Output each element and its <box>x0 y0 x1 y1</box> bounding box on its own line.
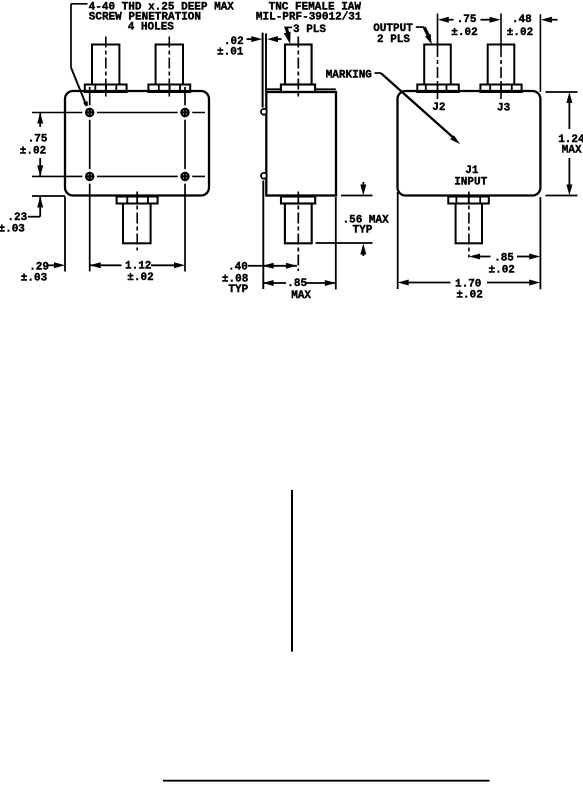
svg-text:.85: .85 <box>494 252 514 264</box>
svg-text:MAX: MAX <box>291 290 311 302</box>
svg-text:.40: .40 <box>228 262 248 274</box>
svg-text:2 PLS: 2 PLS <box>377 34 410 46</box>
svg-text:J1: J1 <box>465 165 479 177</box>
svg-text:J3: J3 <box>497 103 511 115</box>
svg-text:±.02: ±.02 <box>20 146 46 158</box>
svg-text:MAX: MAX <box>562 144 582 156</box>
svg-text:±.02: ±.02 <box>127 272 153 284</box>
svg-text:1.12: 1.12 <box>125 261 151 273</box>
svg-text:MIL-PRF-39012/31: MIL-PRF-39012/31 <box>256 11 362 23</box>
svg-text:.85: .85 <box>287 278 307 290</box>
svg-text:±.01: ±.01 <box>217 46 244 58</box>
svg-text:.23: .23 <box>7 212 27 224</box>
svg-text:.48: .48 <box>512 14 532 26</box>
svg-text:±.02: ±.02 <box>489 264 515 276</box>
svg-text:±.03: ±.03 <box>21 272 48 284</box>
svg-text:.75: .75 <box>457 14 477 26</box>
svg-text:±.02: ±.02 <box>451 27 477 39</box>
svg-text:±.02: ±.02 <box>456 290 482 302</box>
svg-text:TYP: TYP <box>228 284 248 296</box>
svg-text:±.02: ±.02 <box>507 27 533 39</box>
svg-text:INPUT: INPUT <box>454 177 487 189</box>
svg-text:4 HOLES: 4 HOLES <box>128 21 175 33</box>
svg-text:±.03: ±.03 <box>0 223 25 235</box>
svg-text:3 PLS: 3 PLS <box>293 24 326 36</box>
svg-text:J2: J2 <box>432 102 445 114</box>
svg-text:MARKING: MARKING <box>326 70 373 82</box>
svg-text:1.70: 1.70 <box>455 278 481 290</box>
svg-text:TYP: TYP <box>353 224 373 236</box>
svg-text:.75: .75 <box>28 133 48 145</box>
